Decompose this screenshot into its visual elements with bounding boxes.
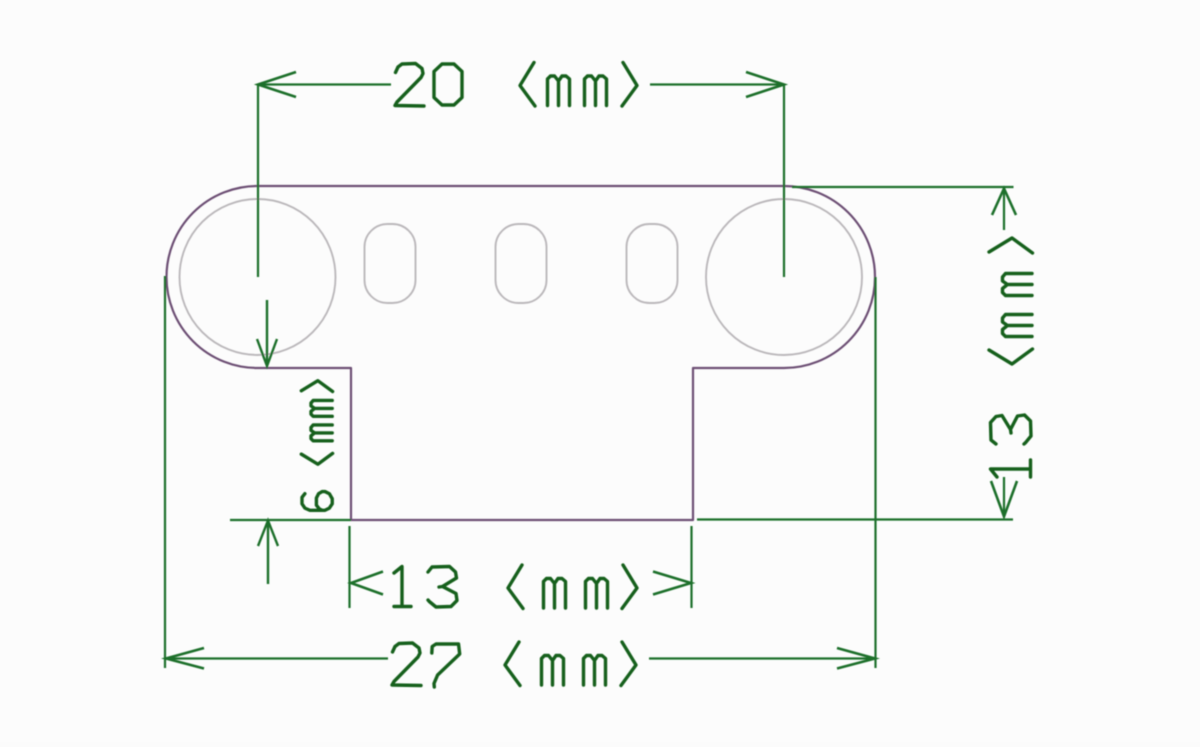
dimension 13mm right extension line top [792,186,1014,188]
dimension 20mm line [258,83,784,85]
dimension 13mm right line [1003,189,1005,517]
dimension 27mm line [166,657,875,659]
dimension 13mm bottom text "13 (mm)" [394,565,637,609]
dimension 13mm right extension line bottom [697,518,1013,520]
dimension 20mm arrow left [258,72,296,97]
dimension 6mm extension line bottom [230,519,351,521]
dimension 20mm text "20 (mm)" [395,63,637,107]
dimension 13mm bottom arrow right [653,572,691,595]
slot 1 [365,224,416,303]
dimension 20mm extension line right [783,85,785,278]
slot 2 [496,224,547,303]
dimension 20mm arrow right [746,72,784,97]
dimension 27mm arrow left [166,648,204,669]
hole left [180,199,336,355]
dimension 20mm extension line left [257,85,259,278]
dimension 6mm arrow down [257,300,277,366]
dimension 13mm right text "13 (mm)" rotated [989,238,1033,477]
hole right [706,199,862,355]
dimension 6mm arrow up [258,521,278,585]
dimension 13mm right arrow top [992,189,1016,216]
dimension 6mm text "6 (mm)" rotated [301,381,332,511]
dimension 13mm right arrow bottom [991,481,1017,517]
dimension 13mm bottom extension line left [348,526,350,608]
dimension 27mm extension line right [874,277,876,668]
dimension 13mm bottom arrow left [351,572,383,595]
dimension 27mm extension line left [164,276,166,668]
dimension 27mm text "27 (mm)" [392,642,636,687]
dimension 27mm arrow right [837,648,875,669]
slot 3 [627,224,678,303]
part outline [167,186,876,520]
dimension 13mm bottom extension line right [690,526,692,608]
